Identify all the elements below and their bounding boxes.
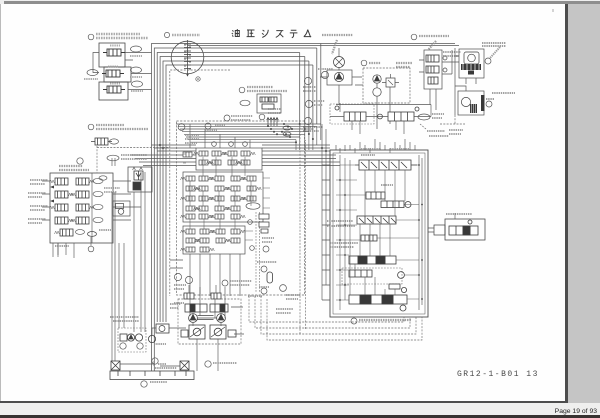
wire L2 <box>154 48 316 371</box>
right inner verticals <box>419 155 422 310</box>
filter circles bottom-left of cluster <box>174 273 181 280</box>
junction dots <box>159 123 327 152</box>
lock check valve <box>91 138 112 145</box>
block bottom label <box>351 318 357 324</box>
spool S6 <box>349 256 396 264</box>
left side labels of bank <box>28 180 111 246</box>
solenoid bank box <box>50 173 113 243</box>
wires aircon <box>320 48 362 95</box>
small speck top right <box>552 9 554 12</box>
bank valves <box>55 178 89 236</box>
bank ovals <box>76 176 108 237</box>
brake valve block <box>424 50 442 89</box>
arrows at bank left <box>50 186 54 203</box>
dots on block edge <box>339 164 423 301</box>
drawing number <box>457 370 587 380</box>
accumulator <box>267 272 273 283</box>
orbit roll label <box>482 43 506 58</box>
wires idle box <box>339 83 436 129</box>
hydraulic to crane label <box>420 124 426 129</box>
orbit roll unit <box>459 49 484 78</box>
travel motor unit <box>458 91 484 115</box>
lock check solenoid label <box>88 124 94 130</box>
spool S9 <box>349 295 407 311</box>
dashed to 2nd motor <box>440 115 465 124</box>
pressure sensor label <box>280 285 287 292</box>
dense valve matrix <box>183 126 291 254</box>
dashed drop <box>97 146 170 173</box>
right page edge shadow <box>565 4 568 403</box>
spool S3 <box>381 201 411 208</box>
brake valve label <box>411 34 417 40</box>
relief valve in idle box <box>386 78 395 87</box>
rotary joint label <box>164 32 169 37</box>
footer page number <box>520 408 597 417</box>
top gray bar <box>0 0 600 5</box>
wire L1 <box>152 44 456 372</box>
valve symbols in steering block <box>102 49 125 93</box>
check valve box right of bank <box>113 201 130 216</box>
air conditioner motor <box>334 57 345 68</box>
labels inside cluster <box>185 116 253 143</box>
S8 small parts <box>389 284 407 293</box>
wires brake->orbit <box>419 50 459 74</box>
circled numbers <box>120 343 126 349</box>
wires top cluster <box>330 103 431 134</box>
wires below cluster matrix <box>170 254 240 296</box>
wires to travel motor <box>455 48 466 115</box>
oval 6A below bank <box>88 232 97 237</box>
block left edge stubs <box>322 124 422 310</box>
title 油圧システム (drawn strokes) <box>232 29 311 38</box>
spool S4 <box>357 216 396 224</box>
rotary joint <box>171 41 204 74</box>
fan-out arrows <box>267 118 279 127</box>
E3 motor box <box>156 324 169 333</box>
piston pumps <box>181 316 236 340</box>
tacho circle <box>148 335 155 342</box>
spool S1 <box>355 160 417 170</box>
wire bus rows <box>176 124 321 142</box>
idle valve label 微調弁 <box>361 60 367 66</box>
air conditioner label <box>322 35 353 54</box>
spool S2 TUNL <box>366 192 385 199</box>
oval tags <box>87 46 143 87</box>
wire below bank circle <box>88 246 94 252</box>
wires from bank <box>42 158 145 362</box>
verticals down to pumps <box>112 172 145 362</box>
solenoid valve (steering) label <box>88 34 94 40</box>
pump circles <box>189 314 198 323</box>
wires pumps <box>152 318 244 371</box>
solenoid valve (fuel) block <box>257 94 281 113</box>
wires from steering block to bus <box>93 53 152 90</box>
label bottom of cluster <box>222 280 228 286</box>
dashed loop <box>170 70 230 296</box>
bus loop corners (left nested) <box>152 44 460 372</box>
check valve marks <box>443 56 447 60</box>
spool S5 <box>361 235 377 241</box>
solenoid control valve label <box>77 158 83 164</box>
solenoid valve (fuel line) label <box>239 87 245 93</box>
wire L6 <box>166 65 313 322</box>
wire L3 <box>157 53 300 323</box>
node below rotary joint <box>186 74 189 77</box>
wire L4 <box>160 57 305 323</box>
winch drop wires <box>189 285 243 318</box>
hydraulic steering valve label <box>107 155 119 161</box>
right gray margin <box>568 4 600 403</box>
crane block internal wires <box>336 155 419 310</box>
spool S7 + dashed box <box>342 268 402 284</box>
air conditioner pump <box>327 70 352 85</box>
wire branch verticals center <box>300 44 321 140</box>
bottom dark bar <box>0 415 600 418</box>
labels column H3 etc <box>304 77 311 84</box>
bottom page edge shadow <box>0 401 567 403</box>
pump in idle box <box>373 75 381 83</box>
travel motor label <box>486 93 515 99</box>
footer strip <box>0 403 600 415</box>
hydraulic steering valve unit <box>128 167 152 192</box>
vertical drops from rows into block top <box>296 124 321 150</box>
oil temp motor label A4 <box>321 71 328 78</box>
solenoid valve (steering) block <box>99 43 131 100</box>
wire L5 <box>163 61 309 322</box>
idle valve dashed box <box>363 68 410 103</box>
